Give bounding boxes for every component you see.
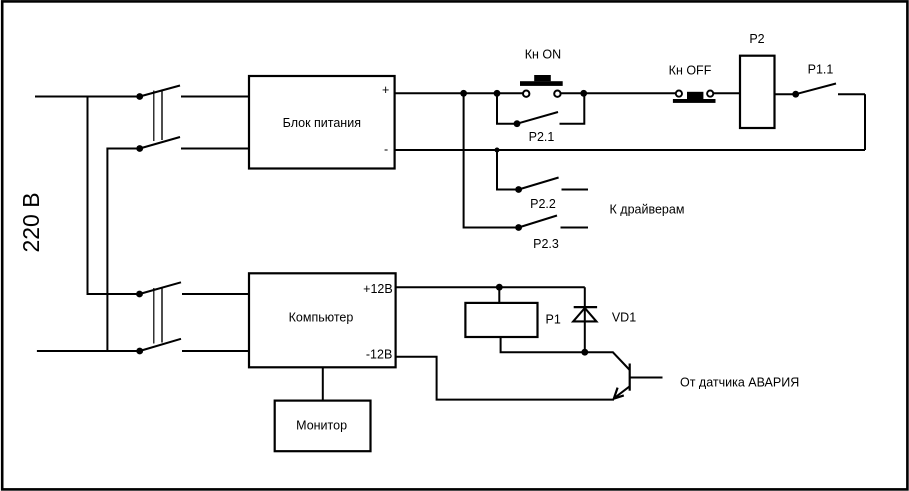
wire bbox=[181, 148, 250, 150]
pushbutton Кн ON bbox=[520, 75, 563, 97]
wire left vertical branch to lower switch bbox=[88, 97, 140, 295]
node junction on + rail at P2.1 branch bbox=[494, 90, 501, 97]
wire bbox=[182, 350, 250, 352]
computer box Компьютер bbox=[249, 273, 396, 367]
svg-text:+: + bbox=[382, 83, 389, 97]
svg-text:От датчика АВАРИЯ: От датчика АВАРИЯ bbox=[680, 376, 799, 390]
svg-text:+12В: +12В bbox=[363, 282, 393, 296]
node junction on minus rail bbox=[495, 148, 500, 153]
wire + rail after Кн OFF bbox=[714, 92, 741, 94]
wire second vertical branch to upper switch pole b bbox=[107, 149, 139, 352]
svg-text:P2.2: P2.2 bbox=[530, 197, 556, 211]
svg-text:Блок питания: Блок питания bbox=[283, 116, 361, 130]
monitor box Монитор bbox=[275, 401, 371, 452]
svg-text:-: - bbox=[384, 143, 388, 157]
wire +12V rail bbox=[396, 286, 585, 288]
switch S2 pole b bbox=[136, 339, 181, 355]
wire diode branch vertical bbox=[584, 287, 586, 352]
svg-text:P1: P1 bbox=[546, 313, 561, 327]
wire computer to monitor bbox=[322, 367, 324, 400]
svg-text:Компьютер: Компьютер bbox=[289, 310, 354, 324]
svg-text:-12В: -12В bbox=[366, 348, 392, 362]
wire top 220V feed bbox=[35, 96, 140, 98]
svg-text:VD1: VD1 bbox=[612, 311, 636, 325]
power supply box Блок питания bbox=[249, 76, 395, 169]
label 220 В bbox=[18, 192, 44, 252]
svg-text:220 В: 220 В bbox=[18, 192, 44, 252]
relay coil P2 bbox=[740, 56, 775, 128]
wire vertical from + rail to P2.3 bbox=[464, 93, 519, 227]
wire minus rail bbox=[395, 149, 865, 151]
svg-text:Монитор: Монитор bbox=[296, 419, 347, 433]
svg-text:Кн ON: Кн ON bbox=[525, 48, 561, 62]
wire bbox=[181, 96, 250, 98]
svg-text:К драйверам: К драйверам bbox=[610, 203, 685, 217]
wire bottom 220V feed bbox=[37, 350, 140, 352]
svg-text:P2: P2 bbox=[749, 32, 764, 46]
transistor Q1 bbox=[585, 352, 663, 398]
switch S1 pole a bbox=[136, 86, 180, 100]
switch S2 pole a bbox=[136, 282, 181, 297]
node junction on +12V rail bbox=[496, 284, 503, 291]
diode VD1 bbox=[573, 307, 597, 321]
wire -12V to emitter bbox=[396, 357, 614, 400]
relay contact P1.1 bbox=[792, 84, 865, 98]
node junction on + rail bbox=[460, 90, 467, 97]
node junction diode anode bbox=[581, 349, 588, 356]
wire + rail from power supply bbox=[395, 92, 526, 94]
node junction on + rail right of Кн ON bbox=[580, 90, 587, 97]
wire P2 to P1.1 bbox=[775, 93, 796, 95]
relay contact P2.2 branch bbox=[497, 150, 588, 193]
wire + rail after Кн ON bbox=[557, 92, 676, 94]
switch S1 pole b bbox=[136, 137, 180, 152]
relay contact P2.3 branch bbox=[515, 216, 588, 231]
relay contact P2.1 branch bbox=[497, 93, 584, 127]
wire right vertical return bbox=[864, 94, 866, 150]
svg-text:P1.1: P1.1 bbox=[808, 63, 834, 77]
mechanical link S1 bbox=[154, 90, 162, 142]
wire bbox=[182, 293, 250, 295]
svg-text:Кн OFF: Кн OFF bbox=[669, 64, 712, 78]
svg-text:P2.3: P2.3 bbox=[533, 237, 559, 251]
svg-text:P2.1: P2.1 bbox=[529, 130, 555, 144]
relay coil P1 bbox=[465, 287, 584, 352]
pushbutton Кн OFF bbox=[673, 91, 716, 103]
mechanical link S2 bbox=[154, 287, 162, 344]
